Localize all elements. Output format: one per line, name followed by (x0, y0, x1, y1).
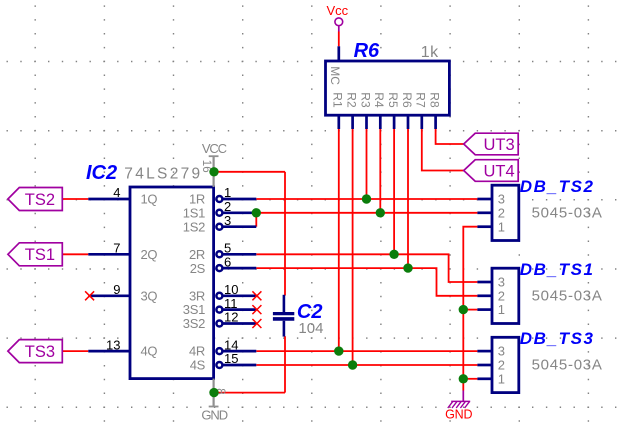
svg-text:15: 15 (224, 351, 238, 366)
svg-text:DB_TS2: DB_TS2 (520, 177, 595, 196)
svg-text:1k: 1k (421, 44, 439, 61)
resistor network R6 body (326, 61, 450, 115)
svg-text:TS1: TS1 (25, 246, 55, 264)
junction ground net / DB_TS3 pin1 (459, 374, 468, 383)
DB_TS1 pin 1 (477, 308, 492, 311)
R6 pin R8 lead (434, 115, 437, 129)
svg-text:4Q: 4Q (141, 344, 158, 359)
svg-text:1: 1 (224, 185, 231, 200)
R6 pin R3 lead (365, 115, 368, 129)
R6 pin R5 lead (393, 115, 396, 129)
port UT3 (464, 133, 519, 155)
junction ground net / DB_TS1 pin1 (459, 305, 468, 314)
svg-text:R1: R1 (331, 92, 345, 108)
svg-text:3Q: 3Q (141, 288, 158, 303)
svg-text:3S1: 3S1 (183, 302, 205, 317)
svg-text:3: 3 (498, 192, 505, 207)
svg-text:9: 9 (113, 282, 120, 297)
svg-text:3: 3 (498, 344, 505, 359)
wire 4S row: IC2 pin15 to DB_TS3 pin2 (256, 364, 477, 366)
svg-text:5: 5 (224, 241, 231, 256)
R6 pin R2 lead (351, 115, 354, 129)
junction R2 / 4S row (348, 360, 357, 369)
wire link IC2 pin2 to pin3 (255, 213, 257, 227)
R6 pin R1 lead (337, 115, 340, 129)
svg-text:2: 2 (498, 205, 505, 220)
IC2 pin 7 (88, 253, 130, 256)
IC2 pin 9 (88, 294, 130, 297)
no-connect IC2 pin10 (252, 291, 261, 300)
junction VCC rail at IC2 pin16 (209, 167, 218, 176)
DB_TS3 pin 1 (477, 377, 492, 380)
IC2 pin 11 (216, 307, 222, 313)
svg-text:104: 104 (298, 320, 323, 337)
wire node to DB_TS3 pin1 (463, 378, 477, 380)
no-connect IC2 pin12 (252, 319, 261, 328)
DB_TS2 pin 3 (477, 198, 492, 201)
IC2 pin 15 (216, 362, 222, 368)
junction R4 / 1S1 row (376, 208, 385, 217)
junction R5 / 2R row (389, 250, 398, 259)
svg-text:10: 10 (224, 282, 238, 297)
wire 2S row: IC2 pin6 to DB_TS1 pin2 (256, 268, 477, 296)
wire 1S1 row: IC2 pin2 to DB_TS2 pin2 (256, 212, 477, 214)
svg-text:2R: 2R (189, 247, 205, 262)
wire 4R row: IC2 pin14 to DB_TS3 pin3 (256, 350, 477, 352)
IC2 pin 3 (216, 224, 222, 230)
svg-text:DB_TS3: DB_TS3 (520, 329, 595, 348)
svg-text:R6: R6 (400, 92, 414, 108)
power port Vcc (335, 18, 343, 26)
junction GND at IC2 pin8 (209, 388, 218, 397)
svg-text:14: 14 (224, 337, 238, 352)
svg-text:R5: R5 (386, 92, 400, 108)
wire TS2 to IC2 pin4 (62, 198, 88, 200)
no-connect IC2 pin9 (85, 291, 94, 300)
svg-text:R7: R7 (414, 92, 428, 108)
capacitor C2 (283, 295, 286, 312)
svg-text:2S: 2S (190, 261, 206, 276)
svg-text:UT4: UT4 (484, 162, 515, 180)
svg-text:1: 1 (498, 302, 505, 317)
port TS3 (8, 340, 62, 363)
IC IC2 74LS279 body (130, 187, 214, 379)
svg-text:6: 6 (224, 254, 231, 269)
R6 pin R4 lead (379, 115, 382, 129)
wire IC2 pin8 GND to C2 column (214, 392, 285, 394)
svg-text:UT3: UT3 (484, 136, 515, 154)
svg-text:MC: MC (328, 66, 342, 85)
wire VCC rail from IC2 pin16 to C2 column (214, 171, 285, 173)
DB_TS1 pin 2 (477, 294, 492, 297)
connector DB_TS1 body (492, 268, 519, 323)
svg-text:DB_TS1: DB_TS1 (520, 260, 595, 279)
R6 pin R7 lead (420, 115, 423, 129)
svg-text:GND: GND (445, 408, 472, 422)
DB_TS1 pin 3 (477, 281, 492, 284)
IC2 pin 13 (88, 350, 130, 353)
junction R3 / 1R row (362, 194, 371, 203)
wire C2 column up to C2 bottom lead (284, 336, 286, 392)
wire C2 column down to C2 top lead (284, 172, 286, 296)
port TS1 (8, 243, 62, 266)
wire 2R row: IC2 pin5 to DB_TS1 pin3 (256, 254, 477, 282)
svg-text:4: 4 (113, 185, 120, 200)
svg-text:74LS279: 74LS279 (124, 165, 202, 182)
wire R6 pin R3 down to node on 1R row (366, 129, 368, 199)
wire TS1 to IC2 pin7 (62, 253, 88, 255)
svg-text:2: 2 (224, 199, 231, 214)
R6 common pin (337, 46, 340, 61)
svg-text:5045-03A: 5045-03A (532, 357, 603, 374)
port TS2 (8, 188, 62, 211)
wire R6 pin R6 down to node on 2S row (407, 129, 409, 268)
ground symbol (462, 391, 464, 402)
DB_TS3 pin 3 (477, 350, 492, 353)
IC2 pin 14 (216, 348, 222, 354)
svg-text:3: 3 (224, 213, 231, 228)
svg-text:1: 1 (498, 219, 505, 234)
wire TS3 to IC2 pin13 (62, 350, 88, 352)
svg-text:R8: R8 (427, 92, 441, 108)
IC2 hidden power pin 16 VCC (213, 156, 215, 187)
svg-text:2: 2 (498, 288, 505, 303)
IC2 hidden power pin 8 GND (213, 379, 215, 407)
connector DB_TS3 body (492, 337, 519, 392)
wire R6 pin R8 to UT3 (436, 129, 464, 144)
wire node to DB_TS1 pin1 (463, 309, 477, 311)
svg-text:Vcc: Vcc (326, 3, 348, 18)
wire R6 pin R1 down to node on 4R row (338, 129, 340, 351)
no-connect IC2 pin11 (252, 305, 261, 314)
svg-text:R4: R4 (372, 92, 386, 108)
R6 pin R6 lead (407, 115, 410, 129)
svg-text:3S2: 3S2 (183, 316, 205, 331)
IC2 pin 12 (216, 321, 222, 327)
svg-text:5045-03A: 5045-03A (532, 288, 603, 305)
IC2 pin 10 (216, 293, 222, 299)
DB_TS2 pin 2 (477, 211, 492, 214)
wire R6 pin R4 down to node on 1S1 row (379, 129, 381, 213)
svg-text:GND: GND (201, 408, 227, 423)
svg-text:11: 11 (224, 296, 238, 311)
svg-text:R3: R3 (358, 92, 372, 108)
wire common ground: DB_TS2 pin1 down to GND symbol (463, 227, 477, 391)
wire R6 pin R2 down to node on 4S row (352, 129, 354, 365)
svg-text:1S1: 1S1 (183, 205, 205, 220)
DB_TS2 pin 1 (477, 225, 492, 228)
svg-text:12: 12 (224, 310, 238, 325)
svg-text:7: 7 (113, 241, 120, 256)
svg-text:5045-03A: 5045-03A (532, 205, 603, 222)
wire R6 pin R5 down to node on 2R row (393, 129, 395, 254)
svg-text:1R: 1R (189, 192, 205, 207)
svg-text:R2: R2 (344, 92, 358, 108)
DB_TS3 pin 2 (477, 364, 492, 367)
svg-text:TS3: TS3 (25, 343, 55, 361)
svg-text:R6: R6 (354, 40, 380, 62)
svg-text:1: 1 (498, 371, 505, 386)
IC2 pin 2 (216, 210, 222, 216)
connector DB_TS2 body (492, 185, 519, 240)
junction IC2 pin2/pin3 (252, 208, 261, 217)
svg-text:4R: 4R (189, 344, 205, 359)
wire Vcc port to R6 common pin (338, 32, 340, 47)
wire R6 pin R7 to UT4 (422, 129, 464, 171)
IC2 pin 1 (216, 196, 222, 202)
svg-text:1S2: 1S2 (183, 219, 205, 234)
svg-text:IC2: IC2 (86, 162, 117, 184)
svg-text:1Q: 1Q (141, 192, 158, 207)
IC2 pin 6 (216, 265, 222, 271)
port UT4 (464, 160, 519, 182)
svg-text:2Q: 2Q (141, 247, 158, 262)
svg-text:TS2: TS2 (25, 191, 55, 209)
wire 1R row: IC2 pin1 to DB_TS2 pin3 (256, 198, 477, 200)
svg-text:3: 3 (498, 275, 505, 290)
IC2 pin 4 (88, 198, 130, 201)
IC2 pin 5 (216, 251, 222, 257)
svg-text:13: 13 (106, 337, 120, 352)
svg-text:2: 2 (498, 358, 505, 373)
junction R1 / 4R row (334, 346, 343, 355)
svg-text:VCC: VCC (202, 141, 227, 156)
junction R6 / 2S row (403, 263, 412, 272)
svg-text:4S: 4S (190, 358, 206, 373)
svg-text:3R: 3R (189, 288, 205, 303)
